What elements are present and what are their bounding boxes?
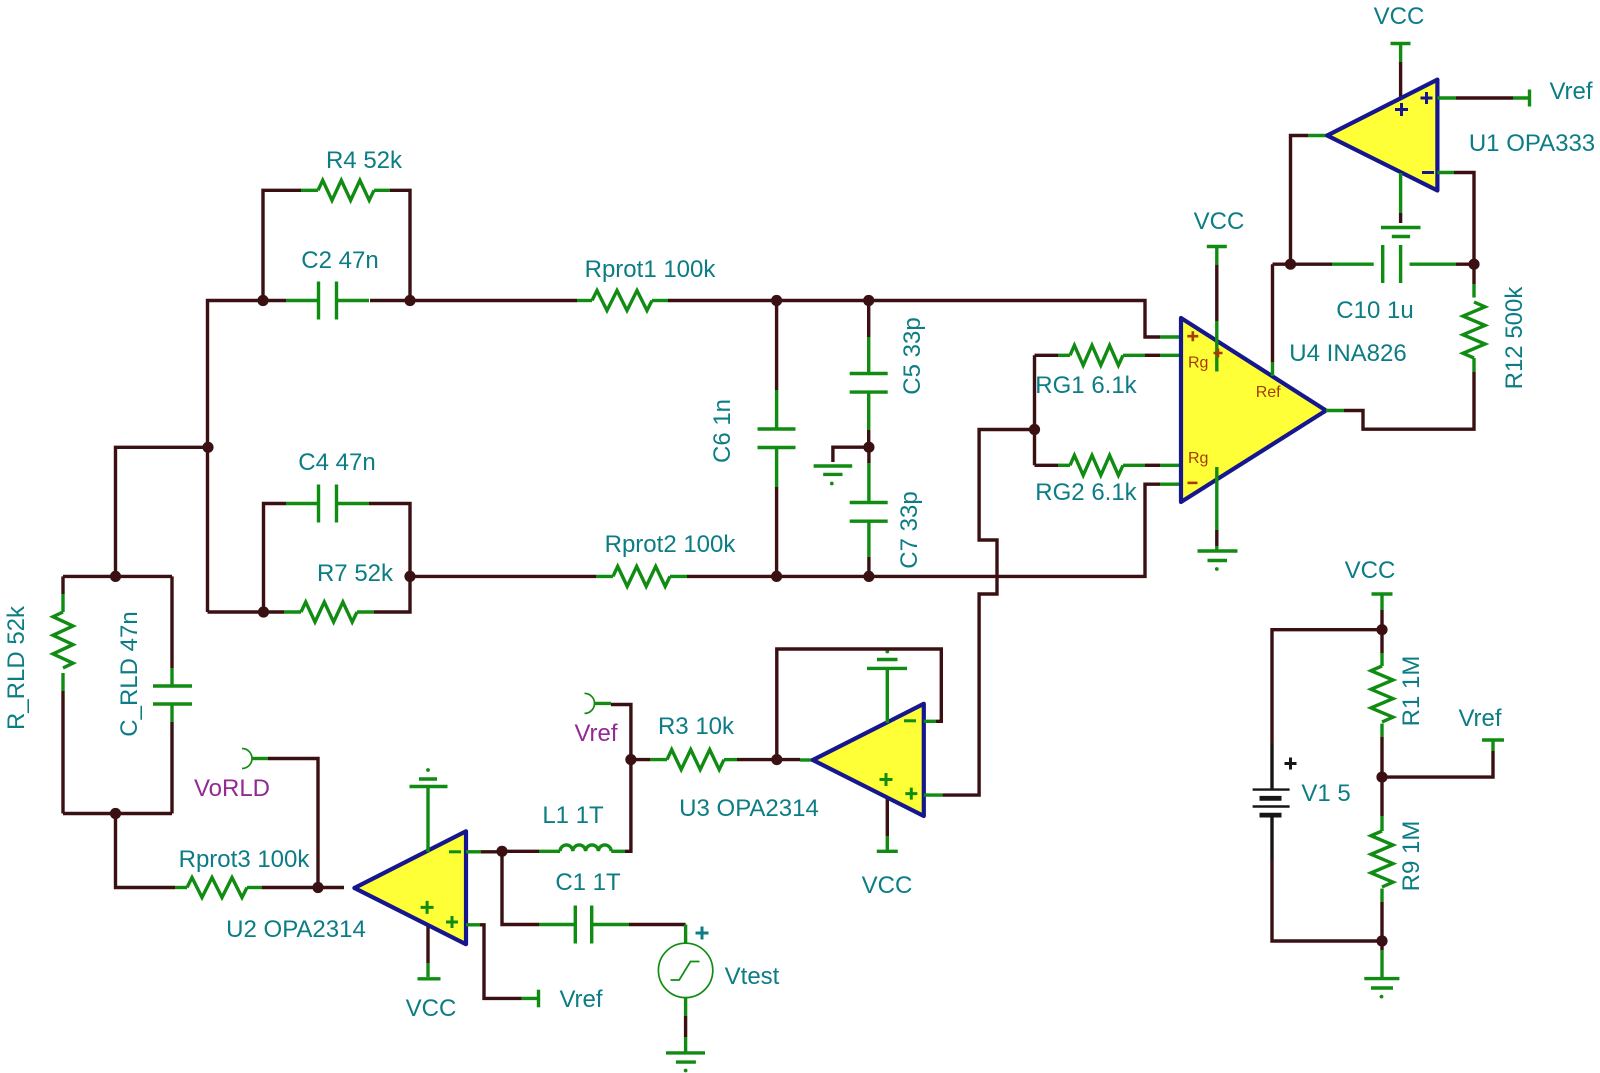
VCC above INA	[1207, 247, 1227, 266]
node A (263,300)	[257, 295, 268, 306]
wire bottom of left vertical to C4 loop	[208, 610, 264, 613]
node (1382,941)	[1376, 935, 1387, 946]
wire C1 row from node	[502, 851, 539, 924]
svg-text:C_RLD 47n: C_RLD 47n	[116, 611, 143, 736]
wire C4 right vertical	[369, 504, 410, 613]
Vtest source	[658, 925, 712, 998]
wire Vtest to ground	[684, 998, 687, 1052]
capacitor C_RLD 47n vertical	[153, 576, 192, 813]
svg-text:RG1 6.1k: RG1 6.1k	[1035, 372, 1137, 399]
resistor R7 52k	[284, 602, 374, 622]
VCC stub below U2	[418, 977, 441, 980]
node (115.5,813.5)	[110, 808, 121, 819]
svg-text:U4 INA826: U4 INA826	[1289, 340, 1406, 367]
wire battery left loop bottom	[1272, 860, 1382, 941]
node (502,851.3)	[496, 846, 507, 857]
svg-text:U3 OPA2314: U3 OPA2314	[679, 795, 819, 822]
wire Rprot1 to INA+ corner	[668, 301, 1160, 338]
svg-text:VoRLD: VoRLD	[194, 775, 270, 802]
svg-text:Rg: Rg	[1188, 355, 1208, 372]
INA output stub	[1326, 409, 1344, 412]
op-amp U2 OPA2314 (mirrored, apex left)	[354, 787, 466, 978]
VCC above divider	[1372, 594, 1393, 630]
wire U2 plus input to Vref stub	[466, 923, 480, 926]
svg-text:R7 52k: R7 52k	[317, 560, 394, 587]
resistor R_RLD 52k vertical	[53, 576, 73, 813]
wire R7 left lead	[264, 610, 285, 613]
node (208,447)	[202, 442, 213, 453]
node (776.8,759.6)	[771, 754, 782, 765]
node (1382,777.1)	[1376, 772, 1387, 783]
inverted ground above U2	[410, 768, 448, 786]
resistor R9 1M vertical	[1371, 777, 1393, 941]
svg-text:R_RLD 52k: R_RLD 52k	[3, 605, 30, 730]
battery V1 5	[1253, 745, 1297, 860]
resistor R3 10k	[631, 750, 800, 770]
svg-text:Rprot1 100k: Rprot1 100k	[585, 256, 717, 283]
svg-text:Vref: Vref	[1458, 705, 1501, 732]
wire Rprot2 row	[410, 575, 596, 578]
svg-text:VCC: VCC	[1194, 208, 1245, 235]
wire Rprot3 to U2 apex	[262, 886, 344, 889]
RLD bottom rail	[63, 812, 172, 815]
inverted ground above U3	[867, 650, 907, 669]
capacitor C10 1u	[1291, 245, 1475, 283]
svg-text:U1 OPA333: U1 OPA333	[1469, 130, 1595, 157]
svg-text:R1 1M: R1 1M	[1398, 656, 1425, 727]
svg-text:Rprot2 100k: Rprot2 100k	[605, 531, 737, 558]
capacitor C2 47n	[286, 282, 369, 320]
wire U1 plus input to Vref terminal	[1437, 96, 1456, 99]
node C6 bottom (776.6,576.4)	[771, 571, 782, 582]
U1 output stub	[1308, 134, 1327, 137]
svg-text:C1 1T: C1 1T	[555, 869, 621, 896]
svg-text:Ref: Ref	[1256, 384, 1281, 401]
svg-text:C6 1n: C6 1n	[709, 399, 736, 463]
svg-text:R4 52k: R4 52k	[326, 147, 403, 174]
capacitor C6 1n vertical	[758, 301, 796, 577]
RG vertical rail	[1033, 355, 1036, 465]
VCC stub below U3	[877, 850, 898, 853]
svg-text:RG2 6.1k: RG2 6.1k	[1035, 479, 1137, 506]
node (630.9,759.6)	[625, 754, 636, 765]
Vref terminal right	[1482, 740, 1504, 751]
node (1382,629.7)	[1376, 624, 1387, 635]
node C6 top (776.6,300.5)	[771, 295, 782, 306]
wire C1 to Vtest	[629, 923, 686, 926]
svg-text:Vtest: Vtest	[725, 963, 780, 990]
Vref pin arc (purple label)	[585, 693, 595, 713]
resistor R12 500k vertical	[1463, 264, 1485, 371]
wire battery left loop top	[1272, 630, 1382, 745]
resistor Rprot3 100k	[175, 878, 262, 898]
wire Rprot2 to INA- corner	[687, 484, 1160, 576]
wire Vref branch	[1382, 751, 1493, 777]
svg-text:VCC: VCC	[1345, 557, 1396, 584]
inductor L1 1T	[539, 845, 625, 851]
wire U3 apex stub	[800, 758, 813, 761]
instrumentation amp U4 INA826	[1181, 264, 1326, 546]
node (1290.5,264.2)	[1285, 259, 1296, 270]
resistor RG2 6.1k	[1035, 455, 1182, 475]
svg-text:C10 1u: C10 1u	[1336, 297, 1413, 324]
wire Ref pin from C10 node	[1273, 263, 1291, 266]
wire left branch node 447	[116, 447, 209, 576]
op-amp U3 OPA2314 (mirrored, apex left)	[813, 668, 924, 850]
INA minus input stub	[1160, 483, 1181, 486]
ground below INA	[1198, 546, 1238, 571]
svg-text:R3 10k: R3 10k	[658, 713, 735, 740]
node (1034.5,429.5)	[1029, 424, 1040, 435]
INA plus input stub	[1160, 335, 1181, 338]
svg-text:Vref: Vref	[1549, 78, 1592, 105]
node C5 top (868.7,300.5)	[863, 295, 874, 306]
wire C2 row dark segments	[263, 299, 410, 302]
wire U1 output down to node	[1291, 136, 1309, 265]
RLD network top rail	[63, 575, 172, 578]
capacitor C1 1T	[539, 906, 629, 944]
VoRLD pin wire	[252, 757, 268, 760]
wire C4/R7 left vertical	[264, 504, 287, 613]
node (1474,264.2)	[1468, 259, 1479, 270]
double-bar ground below U1	[1381, 228, 1421, 237]
node C7 bottom (868.9,576.4)	[863, 571, 874, 582]
svg-text:Rprot3 100k: Rprot3 100k	[179, 846, 311, 873]
Vref terminal at U2	[522, 990, 539, 1008]
wire down to Rprot3 row	[116, 814, 176, 888]
VCC above U1	[1391, 42, 1411, 45]
ground below divider	[1364, 941, 1399, 998]
wire R4 loop	[263, 190, 410, 300]
svg-text:C4 47n: C4 47n	[298, 449, 375, 476]
svg-text:Vref: Vref	[559, 986, 602, 1013]
resistor R4 52k	[301, 180, 390, 200]
svg-text:VCC: VCC	[862, 872, 913, 899]
svg-text:C5 33p: C5 33p	[899, 317, 926, 394]
capacitor C5 33p vertical	[850, 301, 888, 448]
node (115.5,576.4)	[110, 571, 121, 582]
node mid (868.9,447.2)	[863, 442, 874, 453]
wire INA output jog to R12 bottom	[1344, 372, 1474, 430]
Vref pin wire	[595, 702, 612, 705]
wire top-left horizontal y=300	[208, 301, 264, 613]
node (263.5,612)	[258, 606, 269, 617]
svg-text:C2 47n: C2 47n	[301, 247, 378, 274]
VoRLD pin arc	[242, 749, 252, 769]
wire node to L1	[502, 850, 539, 853]
wire to Rprot1	[410, 299, 577, 302]
wire U3 plus input from RG node	[924, 793, 943, 796]
node (318,887.5)	[312, 882, 323, 893]
resistor RG1 6.1k	[1035, 345, 1182, 365]
svg-text:L1 1T: L1 1T	[542, 802, 604, 829]
wire U2 minus input stub	[466, 850, 481, 853]
op-amp U1 OPA333 (mirrored, apex left)	[1327, 44, 1437, 224]
wire L1 to Vref node vertical	[611, 705, 631, 852]
node B (410,300)	[404, 295, 415, 306]
svg-text:R9 1M: R9 1M	[1398, 821, 1425, 892]
svg-text:VCC: VCC	[406, 995, 457, 1022]
wire U1 minus input to R12 top node	[1437, 171, 1454, 174]
ground at C5/C7 midpoint	[814, 447, 869, 485]
svg-text:VCC: VCC	[1374, 3, 1425, 30]
wire U3 minus feedback loop	[924, 720, 936, 723]
node (410,576.4)	[404, 571, 415, 582]
capacitor C7 33p vertical	[850, 447, 888, 576]
svg-text:R12 500k: R12 500k	[1501, 286, 1528, 390]
ground below Vtest	[666, 1053, 705, 1073]
svg-text:V1 5: V1 5	[1301, 780, 1350, 807]
svg-text:U2 OPA2314: U2 OPA2314	[226, 916, 366, 943]
resistor R1 1M vertical	[1371, 630, 1393, 777]
capacitor C4 47n	[286, 485, 369, 523]
svg-text:Vref: Vref	[574, 720, 617, 747]
svg-text:Rg: Rg	[1188, 450, 1208, 467]
resistor Rprot2 100k	[596, 566, 687, 586]
resistor Rprot1 100k	[577, 291, 668, 311]
svg-text:C7 33p: C7 33p	[896, 491, 923, 568]
